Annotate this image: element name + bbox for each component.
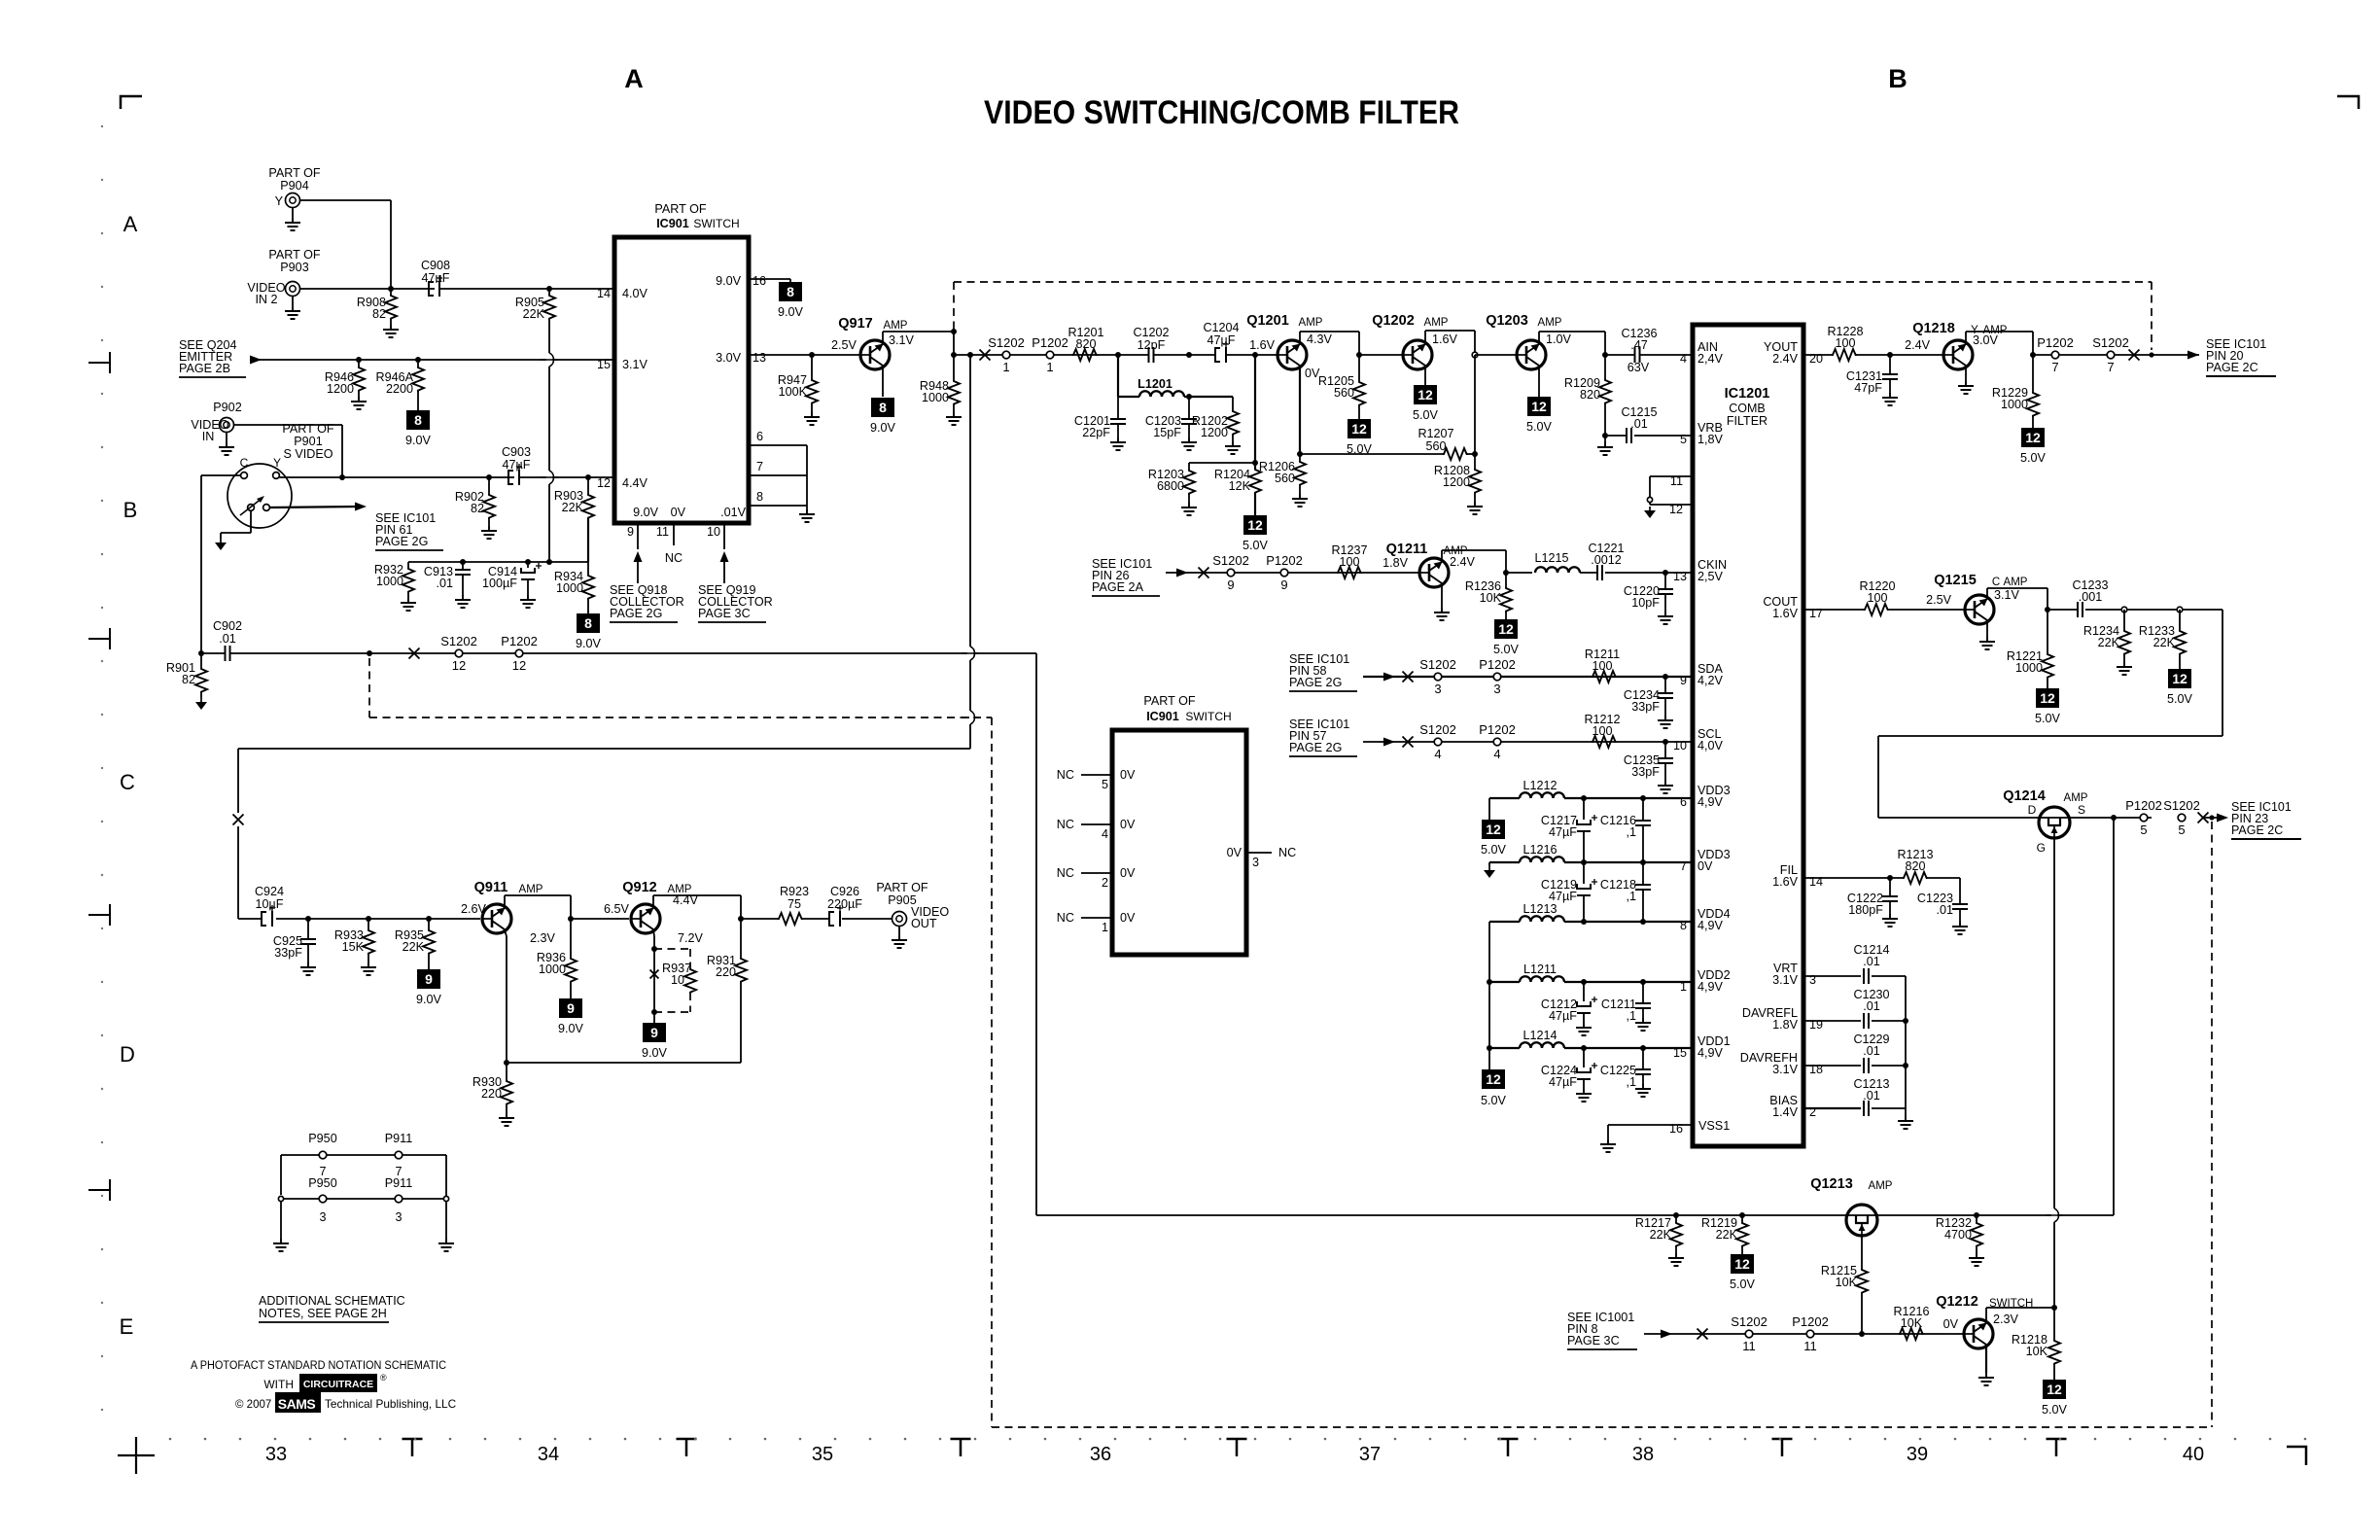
Q1201 collector loop <box>1299 332 1301 344</box>
wire Q204 emitter to IC901 pin 15 <box>250 359 614 361</box>
svg-text:12: 12 <box>2040 690 2055 706</box>
svg-text:1200: 1200 <box>1443 475 1470 489</box>
junction left of bottom row <box>278 1196 283 1201</box>
svg-text:1,8V: 1,8V <box>1697 433 1724 446</box>
svg-text:CIRCUITRACE: CIRCUITRACE <box>303 1379 373 1390</box>
svg-text:12: 12 <box>1669 503 1683 516</box>
junction R903 top <box>585 474 591 480</box>
junction R935 <box>426 916 432 922</box>
svg-text:OUT: OUT <box>911 917 937 930</box>
wire IC101 pin57 to SCL <box>1363 741 1693 743</box>
svg-text:SAMS: SAMS <box>278 1396 316 1412</box>
svg-text:4,9V: 4,9V <box>1697 1046 1724 1060</box>
IC901 pin 9 stub and arrow from Q918 <box>637 523 639 549</box>
svg-text:0V: 0V <box>1120 911 1136 925</box>
svg-text:12: 12 <box>2172 671 2187 686</box>
junction L1214 left <box>1487 1045 1492 1051</box>
wire Q1201 base column through R1204 <box>1254 355 1256 469</box>
svg-text:5.0V: 5.0V <box>1730 1277 1756 1291</box>
svg-text:560: 560 <box>1425 439 1446 453</box>
X mark on Q917 output <box>980 350 991 361</box>
svg-text:P911: P911 <box>385 1132 412 1145</box>
svg-text:P904: P904 <box>280 179 308 192</box>
left margin tick row D/E <box>88 1179 110 1201</box>
junction C1224 top <box>1581 1045 1587 1051</box>
left margin dots <box>101 125 103 127</box>
svg-text:82: 82 <box>471 502 484 515</box>
svg-text:5.0V: 5.0V <box>1413 408 1439 422</box>
wire Q911 collector node to Q912 base <box>571 918 629 920</box>
connector P903 jack VIDEO IN 2 <box>286 282 300 297</box>
hop video column over dashed boundary <box>967 711 973 724</box>
svg-text:12: 12 <box>1498 621 1514 637</box>
svg-text:P911: P911 <box>385 1176 412 1190</box>
junction R1209/C1215 <box>1602 433 1608 438</box>
svg-text:Q1203: Q1203 <box>1486 313 1528 329</box>
svg-text:10pF: 10pF <box>1631 596 1660 610</box>
inline connector P1202 pin 4 <box>1493 738 1501 746</box>
junction dashed box start <box>367 650 372 656</box>
svg-text:P1202: P1202 <box>2125 798 2162 813</box>
svg-text:0V: 0V <box>1120 818 1136 831</box>
page reference box 12 at R1204 <box>1243 515 1267 535</box>
svg-text:P1202: P1202 <box>501 634 538 648</box>
svg-text:2.5V: 2.5V <box>831 338 857 352</box>
connector P902 jack VIDEO IN <box>220 418 234 433</box>
svg-text:S1202: S1202 <box>440 634 477 648</box>
connector block P950/P911 bottom row <box>281 1198 446 1200</box>
junction L1201 right <box>1186 394 1192 400</box>
svg-text:12: 12 <box>1531 399 1547 414</box>
junction C1234 <box>1662 674 1668 680</box>
bottom-left register cross <box>118 1437 155 1474</box>
svg-text:.01V: .01V <box>720 506 747 519</box>
svg-text:PAGE 2B: PAGE 2B <box>179 362 230 375</box>
hop pin15 wire over R905 column <box>546 353 552 367</box>
svg-text:9: 9 <box>627 525 634 539</box>
svg-text:1000: 1000 <box>376 575 403 588</box>
Q1211 emitter to ground <box>1441 584 1443 609</box>
svg-text:35: 35 <box>812 1444 833 1465</box>
svg-text:40: 40 <box>2183 1444 2204 1465</box>
svg-text:33: 33 <box>265 1444 287 1465</box>
svg-text:7: 7 <box>756 460 763 473</box>
svg-text:1.8V: 1.8V <box>1772 1018 1799 1032</box>
svg-text:5: 5 <box>1680 433 1687 446</box>
svg-text:2.3V: 2.3V <box>1993 1312 2019 1326</box>
connector block P950/P911 top row <box>281 1154 446 1156</box>
svg-text:L1216: L1216 <box>1522 843 1557 857</box>
svg-text:C926: C926 <box>830 885 859 898</box>
svg-text:5.0V: 5.0V <box>2020 451 2047 465</box>
svg-text:P1202: P1202 <box>1479 722 1516 737</box>
svg-text:Q917: Q917 <box>838 316 872 332</box>
svg-text:5.0V: 5.0V <box>1526 420 1553 434</box>
svg-text:3: 3 <box>1493 682 1500 696</box>
svg-text:9.0V: 9.0V <box>716 274 742 288</box>
svg-text:1000: 1000 <box>2015 661 2043 675</box>
svg-text:P902: P902 <box>213 401 241 414</box>
wire C902 row corner down to Q1213 row <box>1035 653 1037 1215</box>
svg-text:IN 2: IN 2 <box>255 293 277 306</box>
svg-text:560: 560 <box>1275 472 1295 485</box>
svg-text:5.0V: 5.0V <box>1242 539 1269 552</box>
svg-text:C1202: C1202 <box>1133 326 1169 339</box>
junction R930 <box>504 1060 509 1066</box>
page reference box 12 at L1212 <box>1482 820 1505 839</box>
svg-text:11: 11 <box>1670 474 1683 488</box>
svg-text:9.0V: 9.0V <box>870 421 896 435</box>
svg-text:8: 8 <box>756 490 763 504</box>
junction R1204 top <box>1252 460 1258 466</box>
junction C913 <box>460 559 466 565</box>
svg-text:C: C <box>120 770 135 794</box>
svg-text:0V: 0V <box>1697 859 1713 873</box>
svg-text:47µF: 47µF <box>1549 1075 1577 1089</box>
wire video branch down to Q911 block <box>969 355 971 647</box>
svg-text:15K: 15K <box>342 940 365 954</box>
svg-text:3.1V: 3.1V <box>1772 973 1799 987</box>
svg-text:Q1201: Q1201 <box>1246 313 1289 329</box>
svg-text:10K: 10K <box>2026 1345 2048 1358</box>
junction R1229 top <box>2030 352 2036 358</box>
svg-text:D: D <box>120 1042 135 1067</box>
svg-text:S1202: S1202 <box>1212 553 1249 568</box>
svg-text:Q1211: Q1211 <box>1386 542 1428 557</box>
wire FIL to R1213 <box>1803 877 1903 879</box>
svg-text:3.1V: 3.1V <box>622 358 648 371</box>
X mark on PIN23 wire <box>2198 813 2209 823</box>
junction Q1201 base/R1204 column <box>1252 352 1258 358</box>
svg-text:1000: 1000 <box>2001 398 2028 411</box>
svg-text:.01: .01 <box>1863 1044 1880 1058</box>
wire P901 C pin to C902 node <box>201 474 241 476</box>
svg-text:Y: Y <box>273 456 281 470</box>
ground at P950 block left <box>280 1201 282 1239</box>
svg-text:4,0V: 4,0V <box>1697 739 1724 752</box>
svg-text:1.6V: 1.6V <box>1249 338 1276 352</box>
resistor R937 10 dashed box <box>654 948 690 950</box>
junction R1206 <box>1297 451 1303 457</box>
inline connector P1202 pin 11 <box>1806 1330 1814 1338</box>
dashed boundary top edge <box>954 281 2152 283</box>
svg-text:PAGE 2A: PAGE 2A <box>1092 580 1144 594</box>
ground at P902 <box>226 433 227 443</box>
svg-text:P950: P950 <box>308 1132 336 1145</box>
svg-text:4700: 4700 <box>1944 1228 1972 1242</box>
svg-text:3: 3 <box>1252 856 1259 869</box>
page reference box 12 at R1229 <box>2021 428 2045 447</box>
svg-text:Q1215: Q1215 <box>1934 573 1977 588</box>
svg-text:8: 8 <box>414 412 422 428</box>
wire Q1202 node to Q1203 base <box>1475 354 1517 356</box>
ground at L1216 <box>1488 862 1490 866</box>
svg-text:PART OF: PART OF <box>268 166 320 180</box>
svg-text:47µF: 47µF <box>1549 890 1577 903</box>
svg-text:4: 4 <box>1102 827 1108 841</box>
svg-text:5.0V: 5.0V <box>2042 1403 2068 1417</box>
junction L1211 left <box>1487 979 1492 985</box>
R1203/R1204 row wire <box>1189 462 1255 464</box>
Q1211 collector loop <box>1441 550 1443 562</box>
svg-text:47µF: 47µF <box>1207 333 1236 347</box>
svg-text:IC901: IC901 <box>656 217 689 230</box>
junction C925 <box>305 916 311 922</box>
Q1202 emitter to page 12 <box>1424 367 1426 386</box>
IC901 pin 16 wire to page 8 <box>749 278 790 280</box>
svg-text:39: 39 <box>1907 1444 1928 1465</box>
svg-text:12: 12 <box>2025 430 2041 445</box>
X mark on Q1212 wire <box>1697 1329 1708 1340</box>
svg-text:47µF: 47µF <box>1549 1009 1577 1023</box>
svg-text:®: ® <box>380 1373 387 1382</box>
X mark on SDA wire <box>1403 672 1414 682</box>
svg-text:4,9V: 4,9V <box>1697 795 1724 809</box>
svg-text:22K: 22K <box>523 307 545 321</box>
left margin tick row B/C <box>88 628 110 649</box>
svg-text:63V: 63V <box>1627 361 1650 374</box>
ruler tick mark <box>677 1439 697 1456</box>
page reference box 12 at R1205 <box>1347 419 1371 438</box>
svg-text:C: C <box>1992 577 2000 588</box>
junction R1205 top <box>1356 352 1362 358</box>
svg-text:220µF: 220µF <box>827 897 862 911</box>
svg-text:5: 5 <box>1102 778 1108 791</box>
wire Q1201 node to Q1202 base <box>1359 354 1403 356</box>
wire video column to Q911 input <box>238 748 970 750</box>
Q912 emitter leg <box>653 930 654 937</box>
svg-text:4: 4 <box>1680 352 1687 366</box>
wire to SEE IC101 PIN 23 <box>2203 817 2226 819</box>
svg-text:L1214: L1214 <box>1522 1029 1557 1042</box>
IC1201 pin 11/12 ground bracket <box>1650 475 1693 477</box>
junction C908/R905 <box>546 286 552 292</box>
svg-text:2,5V: 2,5V <box>1697 570 1724 583</box>
svg-text:SWITCH: SWITCH <box>1185 710 1231 723</box>
svg-text:4,9V: 4,9V <box>1697 980 1724 994</box>
svg-text:16: 16 <box>752 274 766 288</box>
svg-text:7: 7 <box>2107 360 2114 374</box>
svg-text:C924: C924 <box>255 885 284 898</box>
svg-text:5.0V: 5.0V <box>1481 843 1507 857</box>
svg-text:14: 14 <box>597 287 611 300</box>
ground at P904 <box>292 208 294 219</box>
svg-text:C903: C903 <box>502 445 531 459</box>
svg-text:,1: ,1 <box>1626 825 1636 839</box>
svg-text:9: 9 <box>567 1000 575 1016</box>
svg-text:5.0V: 5.0V <box>2035 712 2061 725</box>
svg-text:A: A <box>624 64 644 93</box>
ground at P901 arm <box>250 511 252 534</box>
svg-text:.01: .01 <box>1630 417 1648 431</box>
svg-text:12: 12 <box>1486 1071 1501 1087</box>
junction Q912 output <box>738 916 744 922</box>
dashed boundary right drop to PIN 20 wire <box>2151 282 2152 350</box>
svg-text:FILTER: FILTER <box>1727 414 1767 428</box>
junction C1219 top <box>1581 859 1587 865</box>
page reference box 8 at Q917 <box>871 398 894 417</box>
inline connector S1202 pin 4 <box>1434 738 1442 746</box>
svg-text:2: 2 <box>1102 876 1108 890</box>
junction C1230 right <box>1903 1018 1908 1024</box>
page reference box 8 at pin 16 <box>779 282 802 301</box>
inline connector P1202 pin 3 <box>1493 673 1501 681</box>
svg-text:3: 3 <box>395 1210 402 1224</box>
svg-text:© 2007: © 2007 <box>235 1399 271 1411</box>
ruler dots <box>169 1438 172 1441</box>
svg-text:12: 12 <box>452 658 466 673</box>
wire YOUT to R1228 <box>1803 354 1832 356</box>
inline connector P1202 pin 5 <box>2140 814 2148 822</box>
svg-text:100: 100 <box>1867 591 1887 605</box>
svg-text:12: 12 <box>1247 517 1263 533</box>
junction R937 top <box>651 946 657 952</box>
junction C1201/L1201 left <box>1115 352 1121 358</box>
svg-text:3.1V: 3.1V <box>1994 588 2020 602</box>
junction R1232 <box>1974 1212 1979 1218</box>
svg-text:P1202: P1202 <box>1266 553 1303 568</box>
svg-text:SWITCH: SWITCH <box>693 217 739 230</box>
bottom-right corner mark <box>2287 1447 2306 1465</box>
X mark on Q912 emitter leg <box>650 970 659 979</box>
svg-text:9.0V: 9.0V <box>633 506 659 519</box>
Q1202 collector loop <box>1424 331 1426 344</box>
wire DAVREFH to C1229 <box>1803 1065 1861 1067</box>
junction C1222 <box>1887 875 1893 881</box>
svg-text:1: 1 <box>1002 360 1009 374</box>
svg-text:1000: 1000 <box>922 391 949 404</box>
svg-text:P950: P950 <box>308 1176 336 1190</box>
svg-text:33pF: 33pF <box>1631 765 1660 779</box>
svg-text:1.0V: 1.0V <box>1546 332 1572 346</box>
junction R947 <box>809 352 815 358</box>
svg-text:Y: Y <box>275 194 284 208</box>
svg-text:L1213: L1213 <box>1522 902 1557 916</box>
svg-text:13: 13 <box>752 351 766 365</box>
hop video column over C902 wire <box>967 647 973 660</box>
junction R905 column on rail <box>546 559 552 565</box>
svg-text:D: D <box>2028 803 2037 817</box>
svg-text:10K: 10K <box>1836 1276 1858 1289</box>
Q1218 collector loop <box>1965 332 1967 344</box>
junction P904/P903 <box>388 286 394 292</box>
Q911 collector loop to R936 node <box>504 895 506 908</box>
svg-text:12K: 12K <box>1229 479 1251 493</box>
svg-text:7: 7 <box>2051 360 2058 374</box>
wire Q1214 source to P1202 <box>2070 817 2152 819</box>
svg-text:S VIDEO: S VIDEO <box>283 447 332 461</box>
svg-text:15pF: 15pF <box>1153 426 1181 439</box>
svg-text:5: 5 <box>2178 822 2185 837</box>
svg-text:12: 12 <box>1486 822 1501 837</box>
svg-text:IC901: IC901 <box>1146 710 1179 723</box>
svg-text:AMP: AMP <box>1538 317 1562 329</box>
bias rail wire R932 to R934 <box>408 561 588 563</box>
svg-text:NC: NC <box>1057 818 1074 831</box>
svg-text:B: B <box>123 498 138 522</box>
Q917 emitter to page 8 <box>882 367 884 398</box>
ruler tick mark <box>2047 1439 2067 1456</box>
svg-text:3: 3 <box>1434 682 1441 696</box>
dashed boundary right vertical <box>2211 822 2213 1427</box>
svg-text:9.0V: 9.0V <box>778 305 804 319</box>
svg-text:.001: .001 <box>2079 590 2103 604</box>
wire Q1214 gate down to Q1212 collector node <box>2053 838 2055 1208</box>
Q1215 emitter to ground <box>1986 621 1988 638</box>
svg-text:S1202: S1202 <box>1419 722 1456 737</box>
page reference box 12 at R1218 <box>2043 1380 2066 1399</box>
Q911 emitter to bottom rail <box>505 930 507 937</box>
svg-text:8: 8 <box>584 615 592 631</box>
junction R1208 <box>1472 451 1478 457</box>
junction C914 <box>525 559 531 565</box>
svg-text:P903: P903 <box>280 261 308 274</box>
svg-text:2.4V: 2.4V <box>1772 352 1799 366</box>
svg-text:NC: NC <box>1057 866 1074 880</box>
svg-text:22K: 22K <box>402 940 425 954</box>
wire IC101 pin58 to SDA <box>1363 676 1693 678</box>
svg-text:6: 6 <box>756 430 763 443</box>
wire R1236 node to CKIN <box>1506 572 1532 574</box>
wire R905 down to S-video rail <box>548 319 550 353</box>
svg-text:10: 10 <box>671 973 684 987</box>
svg-text:AMP: AMP <box>884 320 908 332</box>
svg-text:9: 9 <box>425 971 433 987</box>
left margin tick row C/D <box>88 904 110 926</box>
junction R1217 <box>1673 1212 1679 1218</box>
svg-text:Q1218: Q1218 <box>1912 321 1955 336</box>
svg-text:47µF: 47µF <box>1549 825 1577 839</box>
svg-text:82: 82 <box>372 307 386 321</box>
svg-text:8: 8 <box>879 400 887 415</box>
svg-text:3.0V: 3.0V <box>716 351 742 365</box>
connector P904 jack <box>286 193 300 208</box>
svg-text:9: 9 <box>1227 577 1234 592</box>
X mark on Q911 input drop <box>233 815 244 825</box>
svg-text:Q1213: Q1213 <box>1810 1176 1853 1192</box>
svg-text:1200: 1200 <box>1201 426 1228 439</box>
svg-text:L1201: L1201 <box>1137 377 1172 391</box>
junction C1216 top <box>1640 795 1646 801</box>
svg-text:.01: .01 <box>1863 1089 1880 1102</box>
ruler tick mark <box>1772 1439 1793 1456</box>
svg-text:P1202: P1202 <box>1792 1314 1829 1329</box>
svg-text:22pF: 22pF <box>1082 426 1110 439</box>
Q1203 emitter to page 12 <box>1538 367 1540 398</box>
hop Q1214 gate over Q1213 row <box>2051 1208 2057 1222</box>
junction C1231 <box>1887 352 1893 358</box>
svg-text:PAGE 2G: PAGE 2G <box>1289 676 1342 689</box>
wire VRT to C1214 <box>1803 975 1861 977</box>
svg-text:S1202: S1202 <box>2163 798 2200 813</box>
wire P902 to Y node <box>234 424 343 426</box>
svg-text:S: S <box>2078 803 2085 817</box>
inline connector P1202 pin 7 <box>2051 351 2059 359</box>
svg-text:10K: 10K <box>1480 591 1502 605</box>
junction R1234 <box>2121 607 2127 612</box>
Q1212 emitter to ground <box>1985 1346 1987 1374</box>
P901 switch arm <box>240 498 262 515</box>
inline connector S1202 pin 7 <box>2107 351 2115 359</box>
junction C1219 bottom <box>1581 919 1587 925</box>
IC901 switch box (part 2) <box>1112 730 1246 955</box>
R1206/R1207 row wire <box>1300 453 1443 455</box>
junction C-pin column <box>198 650 204 656</box>
svg-text:1000: 1000 <box>539 962 566 976</box>
svg-text:1.6V: 1.6V <box>1432 332 1458 346</box>
connector P901 S-video body <box>227 464 292 528</box>
svg-text:PART OF: PART OF <box>654 202 706 216</box>
